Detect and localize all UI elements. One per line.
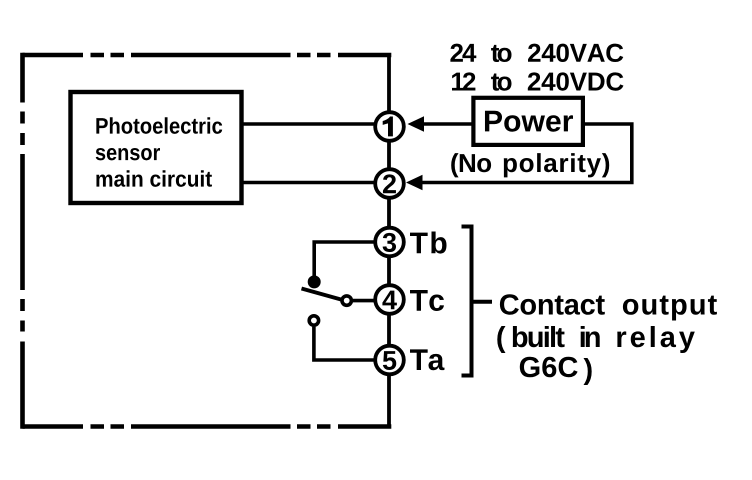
wire: NO contact down to terminal 5 xyxy=(314,327,382,360)
terminal 4 xyxy=(375,285,404,314)
label: (built in relay xyxy=(497,326,695,353)
NO fixed contact of relay (open circle) xyxy=(309,316,318,325)
value label: 24 to 240VAC xyxy=(450,44,623,62)
relay contact blade xyxy=(302,289,342,300)
terminal 1 xyxy=(375,112,404,141)
wire: power box to terminal 1 xyxy=(423,122,474,126)
pin label Ta xyxy=(410,349,445,370)
NC fixed contact of relay (closed, filled dot) xyxy=(308,275,321,288)
terminal 2 xyxy=(375,169,404,198)
terminal 5 xyxy=(375,346,404,375)
wire: terminal 3 to NC fixed contact xyxy=(314,242,382,276)
enclosure dashed outline: bottom edge xyxy=(23,424,392,429)
enclosure dashed outline: top edge xyxy=(23,53,392,58)
wire: terminal bus vertical line (right edge of enclosure) xyxy=(387,55,391,427)
terminal 3 xyxy=(375,228,404,257)
wire: pivot to terminal 4 xyxy=(353,299,382,303)
relay contact pivot (open circle at common) xyxy=(342,296,351,305)
arrowhead into terminal 2 xyxy=(406,175,423,191)
wire: sensor box to terminal 2 xyxy=(242,181,383,185)
enclosure dashed outline: left edge xyxy=(20,53,25,429)
wire: sensor box to terminal 1 xyxy=(242,122,383,126)
pin label Tb xyxy=(410,232,447,254)
label: Contact output xyxy=(500,294,717,320)
arrowhead into terminal 1 xyxy=(408,116,425,132)
box U1: photoelectric sensor main circuit xyxy=(71,92,242,203)
value label: 12 to 240VDC xyxy=(452,72,624,90)
label: (No polarity) xyxy=(451,153,609,177)
wire: power box right side down and around to terminal 2 xyxy=(419,124,632,183)
bracket for contact output group xyxy=(462,227,493,376)
label: G6C) xyxy=(520,357,592,385)
pin label Tc xyxy=(410,290,444,311)
power source box: Power xyxy=(473,98,583,145)
